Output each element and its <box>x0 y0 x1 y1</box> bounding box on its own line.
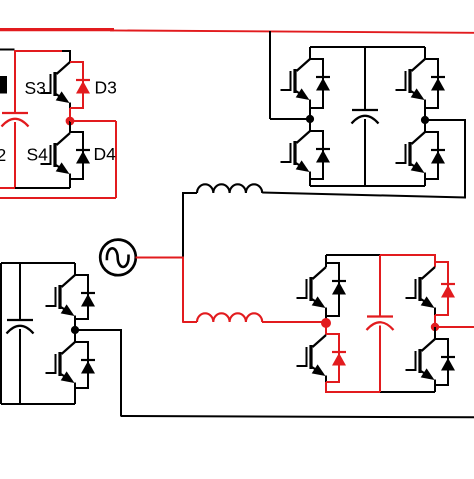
wire black inductor left lead <box>183 192 197 194</box>
transistor bottom bridge upper-right (IGBT) <box>406 255 436 315</box>
wire black midpoint to drop <box>75 329 122 331</box>
diode top bridge upper-left <box>310 59 330 108</box>
diode bottom-left lower <box>75 342 95 388</box>
wire red emitter to right midpoint <box>434 315 436 327</box>
junction bottom bridge left midpoint (red) <box>321 318 331 328</box>
wire black drop to bottom run <box>120 330 122 417</box>
wire red DC bus top thin segment <box>110 30 474 32</box>
wire black bottom rail of top bridge <box>310 185 425 187</box>
junction bottom-left midpoint <box>71 326 79 334</box>
wire red drop to lower inductor <box>182 257 184 323</box>
transistor S4 (IGBT) <box>41 121 71 188</box>
wire black top rail left part <box>326 254 381 256</box>
inductor L2 (red) <box>197 313 262 322</box>
wire red bottom rail continuing left <box>0 187 15 189</box>
wire red collector upper-right <box>434 255 436 267</box>
svg-text:D4: D4 <box>94 144 117 164</box>
cut-off IGBT bar at left edge <box>0 76 7 94</box>
wire black inductor drop <box>182 192 184 257</box>
wire red bottom of loop <box>0 197 116 199</box>
transistor bottom bridge upper-left (IGBT) <box>297 255 327 323</box>
inductor L1 (black) <box>197 184 262 193</box>
transistor top bridge upper-right (IGBT) <box>396 47 426 120</box>
transistor bottom-left upper (IGBT) <box>46 263 76 330</box>
wire red right side of loop <box>115 121 117 198</box>
transistor bottom bridge lower-right (IGBT) <box>406 327 436 392</box>
wire red from midpoint to right <box>70 120 116 122</box>
wire red top rail right part <box>380 254 436 256</box>
AC source Vg <box>100 240 136 276</box>
wire red S3 emitter to midpoint <box>69 108 71 121</box>
wire red bottom rail left part <box>325 391 381 393</box>
diode bottom bridge upper-right (red) <box>435 262 455 315</box>
transistor top bridge lower-left (IGBT) <box>281 119 311 186</box>
diode bottom-left upper <box>75 275 95 319</box>
wire red AC source to node <box>136 257 185 259</box>
wire black top rail bottom-left bridge <box>1 262 75 264</box>
wire black drop from red bus <box>269 31 271 119</box>
junction node S3-S4 midpoint (red) <box>66 117 75 126</box>
wire black right riser down <box>464 119 466 198</box>
wire black stub top-left edge <box>0 49 15 51</box>
wire black long bottom run <box>121 416 474 417</box>
transistor top bridge lower-right (IGBT) <box>396 120 426 186</box>
diode top bridge upper-right <box>425 59 445 108</box>
wire black bottom rail left bridge <box>14 187 70 189</box>
transistor S3 (IGBT) <box>41 50 71 109</box>
svg-text:2: 2 <box>0 145 6 165</box>
wire red collector below left midpoint <box>325 323 327 334</box>
junction top bridge left midpoint <box>306 115 314 123</box>
diode D4 <box>70 132 90 179</box>
capacitor top bridge DC link <box>352 47 379 186</box>
wire red inductor to bottom bridge <box>262 321 326 323</box>
junction bottom bridge right midpoint (red) <box>431 323 439 331</box>
svg-text:S4: S4 <box>27 144 49 164</box>
capacitor bottom-left DC link <box>7 263 34 404</box>
svg-text:D3: D3 <box>95 78 117 98</box>
wire red top rail to S3 <box>14 50 63 52</box>
transistor top bridge upper-left (IGBT) <box>281 47 311 119</box>
diode top bridge lower-left <box>310 131 330 179</box>
wire black left rail bottom bridge <box>0 263 2 404</box>
capacitor bottom bridge DC link (red) <box>367 255 394 392</box>
wire red emitter to bottom rail left <box>325 382 327 392</box>
wire red from right midpoint to edge <box>435 326 474 328</box>
diode bottom bridge upper-left <box>326 263 346 316</box>
diode top bridge lower-right <box>425 132 445 179</box>
wire black bottom rail right part <box>380 391 435 393</box>
wire black to left-leg midpoint <box>270 118 310 120</box>
wire black top rail of top bridge <box>310 46 425 48</box>
wire red to lower inductor <box>183 321 197 323</box>
capacitor C2 (red, left rail) <box>2 50 29 189</box>
wire black bottom rail bottom-left bridge <box>1 403 75 405</box>
wire red DC bus top thick segment <box>0 28 114 31</box>
svg-text:S3: S3 <box>25 78 46 98</box>
diode bottom bridge lower-right <box>435 339 455 385</box>
wire black inductor to right riser <box>262 193 466 198</box>
diode bottom bridge lower-left (red) <box>326 334 346 382</box>
transistor bottom bridge lower-left (IGBT) <box>297 323 327 382</box>
transistor bottom-left lower (IGBT) <box>46 330 76 404</box>
wire black S3 collector corner <box>62 50 70 52</box>
wire black midpoint to right riser <box>425 119 466 121</box>
junction top bridge right midpoint <box>421 116 429 124</box>
diode D3 (red) <box>70 62 90 108</box>
